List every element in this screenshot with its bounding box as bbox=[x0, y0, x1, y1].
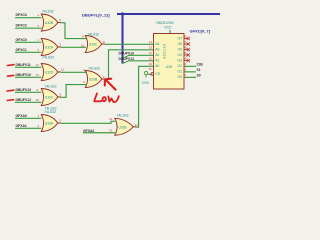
svg-text:74LS32: 74LS32 bbox=[42, 10, 54, 14]
svg-text:U32A: U32A bbox=[45, 46, 54, 50]
svg-text:GFXA2: GFXA2 bbox=[83, 129, 94, 133]
svg-text:O3: O3 bbox=[178, 59, 183, 63]
svg-text:10: 10 bbox=[149, 62, 153, 66]
svg-text:U33C: U33C bbox=[89, 43, 98, 47]
svg-text:A4: A4 bbox=[155, 42, 159, 46]
svg-text:S1: S1 bbox=[197, 68, 201, 72]
svg-text:GFXC1: GFXC1 bbox=[16, 48, 27, 52]
svg-text:GFXA0: GFXA0 bbox=[16, 114, 27, 118]
svg-text:DBUFV12: DBUFV12 bbox=[119, 57, 135, 61]
svg-text:CE: CE bbox=[155, 72, 160, 76]
svg-text:O6: O6 bbox=[178, 42, 183, 46]
svg-text:VSS: VSS bbox=[142, 81, 150, 85]
svg-text:GFXC0: GFXC0 bbox=[16, 38, 27, 42]
svg-text:10: 10 bbox=[36, 98, 40, 102]
svg-text:74LS32: 74LS32 bbox=[44, 110, 56, 114]
svg-text:21B: 21B bbox=[197, 62, 204, 66]
svg-text:U33D: U33D bbox=[118, 125, 127, 129]
svg-text:U25: U25 bbox=[166, 65, 172, 69]
svg-text:O0: O0 bbox=[178, 75, 183, 79]
svg-text:11: 11 bbox=[61, 68, 64, 72]
svg-text:A3: A3 bbox=[155, 48, 159, 52]
svg-text:A2: A2 bbox=[155, 53, 159, 57]
svg-text:O7: O7 bbox=[178, 37, 183, 41]
svg-text:74LS32: 74LS32 bbox=[117, 114, 129, 118]
svg-text:10: 10 bbox=[81, 44, 85, 48]
svg-text:U32D: U32D bbox=[45, 71, 54, 75]
svg-text:13: 13 bbox=[109, 129, 113, 133]
svg-text:11: 11 bbox=[135, 123, 138, 127]
svg-text:12: 12 bbox=[36, 63, 40, 67]
svg-text:74LS32: 74LS32 bbox=[87, 33, 99, 37]
svg-text:DBUFV13: DBUFV13 bbox=[16, 88, 32, 92]
svg-text:GFXC[0..7]: GFXC[0..7] bbox=[190, 29, 211, 34]
svg-text:A1: A1 bbox=[155, 59, 159, 63]
svg-text:O5: O5 bbox=[178, 48, 183, 52]
svg-text:13: 13 bbox=[36, 73, 40, 77]
svg-text:13: 13 bbox=[149, 46, 153, 50]
svg-text:14: 14 bbox=[149, 40, 153, 44]
svg-text:GFXA1: GFXA1 bbox=[16, 124, 27, 128]
svg-text:74LS32: 74LS32 bbox=[42, 55, 54, 59]
svg-text:DBUFV10: DBUFV10 bbox=[119, 51, 135, 55]
svg-text:GFXC2: GFXC2 bbox=[16, 24, 27, 28]
svg-text:N82S123N: N82S123N bbox=[156, 21, 174, 25]
svg-text:O2: O2 bbox=[178, 64, 183, 68]
svg-text:11: 11 bbox=[149, 57, 152, 61]
svg-text:82S123: 82S123 bbox=[163, 44, 167, 59]
svg-text:DBUFV12: DBUFV12 bbox=[16, 98, 32, 102]
svg-text:DBUFV10: DBUFV10 bbox=[16, 73, 32, 77]
svg-text:U33A: U33A bbox=[45, 122, 54, 126]
svg-text:O4: O4 bbox=[178, 53, 183, 57]
svg-text:U32B: U32B bbox=[45, 21, 54, 25]
svg-text:12: 12 bbox=[109, 117, 113, 121]
svg-text:74LS32: 74LS32 bbox=[45, 84, 57, 88]
svg-text:VCC: VCC bbox=[164, 26, 172, 30]
svg-text:U32C: U32C bbox=[45, 96, 54, 100]
svg-text:GFXC3: GFXC3 bbox=[16, 13, 27, 17]
svg-text:U33B: U33B bbox=[89, 78, 98, 82]
svg-text:12: 12 bbox=[149, 51, 153, 55]
svg-text:74LS32: 74LS32 bbox=[88, 67, 100, 71]
svg-text:O1: O1 bbox=[178, 70, 183, 74]
svg-text:DBUFVL[0..11]: DBUFVL[0..11] bbox=[82, 12, 110, 17]
svg-text:A0: A0 bbox=[155, 64, 159, 68]
svg-text:DBUFV11: DBUFV11 bbox=[16, 63, 31, 67]
svg-text:15: 15 bbox=[148, 67, 152, 71]
svg-text:S0: S0 bbox=[197, 73, 201, 77]
